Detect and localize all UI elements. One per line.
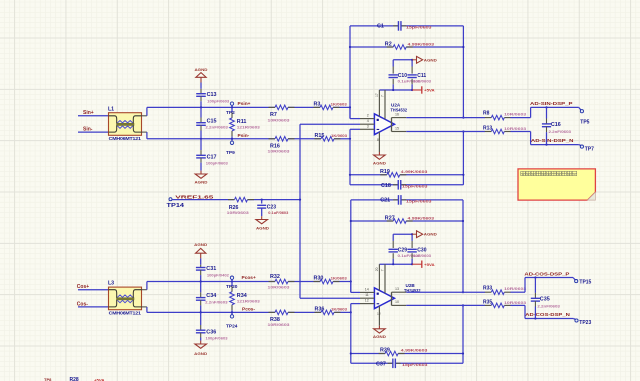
capacitor C31 bbox=[196, 266, 230, 283]
capacitor C37 bbox=[351, 359, 463, 369]
svg-text:15: 15 bbox=[395, 126, 399, 130]
wire vocm stub bbox=[300, 123, 360, 125]
svg-text:TP5: TP5 bbox=[580, 119, 589, 125]
capacitor C18 bbox=[350, 180, 463, 190]
svg-text:10R/0603: 10R/0603 bbox=[268, 322, 291, 327]
svg-text:Sin-: Sin- bbox=[83, 127, 93, 133]
svg-text:12: 12 bbox=[365, 299, 369, 303]
svg-text:TP8: TP8 bbox=[44, 377, 52, 381]
resistor R2 bbox=[350, 41, 463, 49]
svg-text:1K/0603: 1K/0603 bbox=[331, 133, 348, 138]
svg-text:4.99K/0603: 4.99K/0603 bbox=[408, 41, 435, 46]
svg-text:C31: C31 bbox=[206, 266, 216, 272]
svg-text:+5VA: +5VA bbox=[424, 88, 435, 93]
svg-text:121R/0603: 121R/0603 bbox=[237, 299, 261, 304]
svg-text:R13: R13 bbox=[483, 126, 492, 132]
wire feedback-bottom-left bbox=[349, 139, 351, 185]
net VREF1.65 bbox=[167, 195, 301, 210]
capacitor C34 bbox=[196, 282, 229, 314]
testpoint TP15 bbox=[575, 280, 592, 286]
svg-text:AGND: AGND bbox=[373, 335, 386, 339]
svg-text:10R/0603: 10R/0603 bbox=[504, 126, 527, 131]
svg-text:11: 11 bbox=[365, 293, 369, 297]
svg-text:R2: R2 bbox=[385, 41, 392, 47]
wire in- node bbox=[349, 129, 360, 140]
svg-text:R8: R8 bbox=[483, 111, 490, 117]
svg-text:TP23: TP23 bbox=[579, 320, 591, 326]
resistor R30 bbox=[314, 276, 348, 284]
svg-text:R35: R35 bbox=[483, 300, 492, 306]
svg-text:AD-COS-DSP_P: AD-COS-DSP_P bbox=[524, 271, 569, 276]
svg-text:100pF/0603: 100pF/0603 bbox=[206, 335, 229, 340]
resistor R7 bbox=[268, 105, 295, 122]
svg-text:CMH06MT121: CMH06MT121 bbox=[109, 310, 142, 315]
svg-text:AGND: AGND bbox=[195, 180, 209, 184]
svg-text:+5VA: +5VA bbox=[94, 378, 105, 381]
capacitor C16 bbox=[542, 106, 572, 145]
capacitor C29 bbox=[389, 234, 422, 264]
wire choke-out-top bbox=[142, 282, 147, 290]
svg-text:AD-COS-DSP_N: AD-COS-DSP_N bbox=[525, 312, 570, 317]
svg-text:THS4532: THS4532 bbox=[391, 107, 408, 112]
capacitor C30 bbox=[407, 234, 432, 264]
svg-text:TP15: TP15 bbox=[579, 280, 591, 286]
svg-text:R36: R36 bbox=[315, 307, 325, 313]
wire Psin- rail bbox=[147, 138, 350, 140]
resistor R11 bbox=[230, 107, 261, 138]
svg-text:8: 8 bbox=[377, 138, 379, 142]
svg-text:2.2nF/0603: 2.2nF/0603 bbox=[549, 129, 572, 134]
resistor R13 bbox=[406, 126, 530, 134]
svg-text:Sin+: Sin+ bbox=[83, 110, 94, 116]
resistor R32 bbox=[268, 274, 295, 290]
svg-text:4: 4 bbox=[367, 119, 369, 123]
testpoint TP7 bbox=[580, 145, 594, 152]
svg-text:7: 7 bbox=[380, 269, 384, 271]
wire feedback-left bbox=[350, 200, 360, 293]
net label Pcos- bbox=[242, 306, 255, 312]
power +5VA bbox=[412, 86, 435, 93]
svg-text:AD-SIN-DSP_N: AD-SIN-DSP_N bbox=[531, 138, 574, 143]
net AD-COS-DSP_N bbox=[525, 305, 576, 319]
svg-text:10R/0603: 10R/0603 bbox=[268, 117, 291, 122]
resistor R19 bbox=[350, 169, 463, 177]
svg-text:R28: R28 bbox=[70, 377, 79, 381]
resistor R15 bbox=[315, 133, 348, 141]
svg-text:AD-SIN-DSP_P: AD-SIN-DSP_P bbox=[530, 101, 573, 106]
svg-text:Cos+: Cos+ bbox=[77, 284, 89, 290]
svg-text:C16: C16 bbox=[551, 122, 561, 128]
svg-text:Pcos+: Pcos+ bbox=[242, 275, 256, 281]
resistor R3 bbox=[314, 102, 348, 110]
svg-text:1K/0603: 1K/0603 bbox=[331, 307, 348, 312]
wire choke-out-bot bbox=[142, 307, 147, 313]
wire decouple-top-rail bbox=[393, 233, 413, 235]
svg-text:C37: C37 bbox=[376, 361, 386, 367]
svg-text:R3: R3 bbox=[314, 102, 321, 108]
svg-text:1uF/0603: 1uF/0603 bbox=[413, 253, 432, 258]
svg-text:100pF/0603: 100pF/0603 bbox=[206, 160, 229, 165]
testpoint TP2 bbox=[226, 102, 235, 116]
wire vocm stub bbox=[300, 297, 360, 299]
capacitor C15 bbox=[196, 107, 229, 139]
svg-text:4.99K/0603: 4.99K/0603 bbox=[408, 215, 435, 220]
power +5VA bbox=[412, 261, 435, 268]
svg-text:17: 17 bbox=[375, 93, 379, 97]
wire VOCM vertical bbox=[299, 124, 301, 298]
svg-text:+5VA: +5VA bbox=[424, 262, 435, 267]
wire Psin+ rail bbox=[147, 106, 350, 108]
svg-text:1K/0603: 1K/0603 bbox=[331, 276, 348, 281]
capacitor C13 bbox=[196, 92, 230, 108]
svg-text:VREF1.65: VREF1.65 bbox=[175, 195, 214, 201]
wire in- node bbox=[350, 304, 360, 314]
svg-text:100pF/0402: 100pF/0402 bbox=[207, 272, 230, 277]
note sticky bbox=[518, 169, 595, 200]
port Cos- bbox=[77, 301, 109, 307]
svg-text:10R/0603: 10R/0603 bbox=[268, 149, 291, 154]
svg-text:C1: C1 bbox=[377, 24, 384, 30]
op-amp U2A bbox=[360, 90, 407, 135]
capacitor C17 bbox=[196, 139, 228, 166]
svg-text:15pF/0603: 15pF/0603 bbox=[406, 25, 433, 30]
testpoint TP9 bbox=[226, 138, 235, 156]
svg-text:0.1uF/0603: 0.1uF/0603 bbox=[268, 211, 288, 215]
resistor R8 bbox=[406, 111, 530, 120]
svg-text:15pF/0603: 15pF/0603 bbox=[402, 183, 429, 188]
svg-text:100pF/0603: 100pF/0603 bbox=[207, 99, 230, 104]
wire choke-out-top bbox=[142, 107, 147, 115]
svg-text:7: 7 bbox=[380, 95, 384, 97]
wire feedback-right bbox=[462, 26, 464, 119]
wire feedback-bottom-right bbox=[462, 304, 464, 363]
svg-text:C18: C18 bbox=[381, 183, 391, 189]
svg-text:AGND: AGND bbox=[194, 352, 208, 356]
svg-text:AGND: AGND bbox=[424, 233, 438, 237]
ground AGND C23 bbox=[256, 208, 270, 230]
svg-text:C35: C35 bbox=[540, 296, 550, 302]
svg-text:L1: L1 bbox=[108, 106, 114, 112]
svg-text:TP7: TP7 bbox=[585, 146, 594, 152]
svg-text:AGND: AGND bbox=[195, 68, 209, 72]
svg-text:TP24: TP24 bbox=[226, 323, 238, 329]
inductor L3 bbox=[108, 281, 142, 316]
svg-text:C34: C34 bbox=[206, 293, 216, 299]
wire decouple-top-rail bbox=[393, 59, 413, 61]
net label Psin+ bbox=[238, 101, 251, 107]
testpoint TP20 bbox=[226, 276, 238, 290]
svg-text:R27: R27 bbox=[385, 215, 395, 221]
svg-text:15pF/0603: 15pF/0603 bbox=[402, 362, 429, 367]
svg-text:C21: C21 bbox=[380, 198, 390, 204]
svg-text:10R/0603: 10R/0603 bbox=[504, 300, 527, 305]
ground AGND op-amp bbox=[373, 306, 386, 339]
svg-text:Pcos-: Pcos- bbox=[242, 306, 255, 312]
svg-text:R19: R19 bbox=[380, 169, 390, 175]
svg-text:R33: R33 bbox=[483, 285, 492, 291]
wire decouple-bottom-rail bbox=[379, 89, 413, 91]
net AD-COS-DSP_P bbox=[524, 271, 575, 292]
capacitor C35 bbox=[531, 276, 561, 319]
svg-text:AGND: AGND bbox=[424, 58, 438, 62]
svg-text:2.2nF/0603: 2.2nF/0603 bbox=[205, 125, 228, 130]
svg-text:TP2: TP2 bbox=[226, 110, 235, 116]
svg-text:R15: R15 bbox=[315, 133, 325, 139]
resistor R26 bbox=[227, 197, 254, 215]
partial text row bottom bbox=[44, 377, 105, 381]
svg-text:AGND: AGND bbox=[373, 161, 386, 165]
ground AGND op-amp bbox=[373, 132, 386, 165]
port Sin+ bbox=[78, 110, 109, 116]
wire decouple-bottom-rail bbox=[379, 263, 413, 265]
svg-text:16: 16 bbox=[395, 112, 399, 116]
port Cos+ bbox=[77, 284, 109, 290]
wire feedback-bottom-left bbox=[350, 312, 352, 363]
capacitor C36 bbox=[196, 312, 228, 340]
svg-text:C15: C15 bbox=[207, 118, 217, 124]
svg-text:1K/0603: 1K/0603 bbox=[331, 102, 348, 107]
wire Pcos- rail bbox=[147, 311, 351, 313]
capacitor C1 bbox=[350, 21, 463, 31]
net label Pcos+ bbox=[242, 275, 256, 281]
inductor L1 bbox=[108, 106, 142, 141]
svg-text:1uF/0603: 1uF/0603 bbox=[413, 78, 432, 83]
ground AGND arrow bbox=[412, 231, 437, 238]
svg-text:4.99K/0603: 4.99K/0603 bbox=[401, 169, 428, 174]
resistor R39 bbox=[351, 348, 463, 356]
resistor R36 bbox=[315, 307, 348, 315]
wire feedback-right bbox=[462, 200, 464, 293]
svg-text:20: 20 bbox=[375, 267, 379, 271]
op-amp U2B bbox=[360, 264, 421, 308]
wire feedback-bottom-right bbox=[462, 130, 464, 184]
svg-text:TP9: TP9 bbox=[226, 150, 235, 156]
svg-text:12: 12 bbox=[377, 312, 381, 316]
ground AGND bbox=[194, 338, 208, 357]
svg-text:R39: R39 bbox=[380, 348, 390, 354]
testpoint TP5 bbox=[580, 110, 589, 126]
svg-text:Psin-: Psin- bbox=[238, 133, 250, 139]
ground AGND arrow bbox=[412, 56, 437, 63]
svg-text:C13: C13 bbox=[207, 92, 217, 98]
wire choke-out-bot bbox=[142, 132, 147, 139]
ground AGND bbox=[194, 243, 208, 268]
resistor R16 bbox=[268, 137, 295, 154]
svg-text:10R/0603: 10R/0603 bbox=[268, 285, 291, 290]
wire in+ node bbox=[350, 282, 352, 293]
svg-text:C23: C23 bbox=[267, 205, 276, 211]
svg-text:2.2nF/0603: 2.2nF/0603 bbox=[537, 303, 560, 308]
ground AGND bbox=[195, 68, 209, 94]
svg-text:10: 10 bbox=[395, 300, 399, 304]
net label Psin- bbox=[238, 133, 250, 139]
svg-text:TP14: TP14 bbox=[167, 203, 185, 209]
svg-text:CMH06MT121: CMH06MT121 bbox=[109, 136, 142, 141]
resistor R38 bbox=[268, 310, 295, 327]
capacitor C23 bbox=[257, 199, 288, 216]
resistor R27 bbox=[351, 215, 463, 223]
resistor R33 bbox=[406, 285, 527, 294]
capacitor C11 bbox=[407, 60, 432, 90]
wire Pcos+ rail bbox=[147, 281, 351, 283]
svg-text:2.2nF/0603: 2.2nF/0603 bbox=[205, 300, 228, 305]
port Sin- bbox=[78, 127, 109, 133]
svg-text:AGND: AGND bbox=[194, 243, 208, 247]
wire in+ node bbox=[349, 107, 351, 118]
capacitor C21 bbox=[351, 195, 463, 205]
svg-text:121R/0603: 121R/0603 bbox=[237, 125, 261, 130]
svg-text:Psin+: Psin+ bbox=[238, 101, 251, 107]
svg-text:R32: R32 bbox=[270, 274, 280, 280]
svg-text:10R/0603: 10R/0603 bbox=[504, 112, 527, 117]
svg-text:L3: L3 bbox=[108, 281, 114, 287]
svg-text:15pF/0603: 15pF/0603 bbox=[406, 199, 433, 204]
resistor R35 bbox=[406, 300, 527, 308]
svg-text:10R/0603: 10R/0603 bbox=[504, 286, 527, 291]
net AD-SIN-DSP_N bbox=[531, 132, 582, 146]
ground AGND bbox=[195, 163, 209, 185]
svg-text:AGND: AGND bbox=[256, 227, 270, 231]
testpoint TP23 bbox=[575, 319, 592, 326]
net AD-SIN-DSP_P bbox=[530, 101, 581, 117]
wire feedback-left bbox=[349, 26, 360, 119]
svg-text:10R/0603: 10R/0603 bbox=[227, 210, 250, 215]
svg-text:13: 13 bbox=[395, 287, 399, 291]
svg-text:14: 14 bbox=[365, 287, 369, 291]
capacitor C10 bbox=[389, 60, 422, 90]
svg-text:4.99K/0603: 4.99K/0603 bbox=[401, 348, 428, 353]
resistor R34 bbox=[230, 282, 261, 313]
svg-text:2: 2 bbox=[367, 114, 369, 118]
svg-text:Cos-: Cos- bbox=[77, 301, 88, 307]
testpoint TP24 bbox=[226, 311, 238, 329]
svg-text:3: 3 bbox=[367, 124, 369, 128]
svg-text:R30: R30 bbox=[314, 276, 324, 282]
